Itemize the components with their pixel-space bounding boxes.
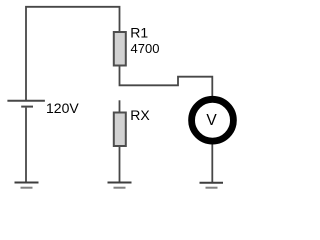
svg-text:V: V [206,112,217,129]
svg-text:RX: RX [130,107,150,123]
svg-text:4700: 4700 [131,41,160,56]
svg-text:R1: R1 [130,24,148,40]
svg-text:120V: 120V [46,100,79,116]
